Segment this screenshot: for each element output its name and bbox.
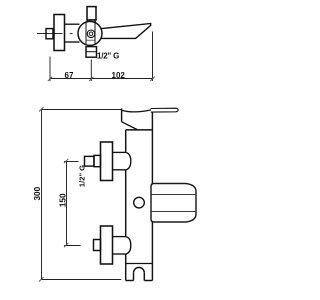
dim 67/102: left extension line (49, 57, 51, 82)
front view: bottom edge right of notch (144, 280, 152, 282)
front view: lever blade (151, 108, 179, 112)
top view: square union fitting (46, 29, 53, 39)
top view: cartridge housing right chord (94, 23, 96, 44)
front view: side knob (151, 184, 196, 223)
front view: body right edge (151, 112, 153, 281)
svg-text:150: 150 (58, 193, 67, 207)
front view: head left edge (121, 108, 123, 121)
front view: lower inlet flange (101, 226, 113, 264)
front view: head top curve (122, 110, 151, 112)
dim 300: top tick (39, 107, 43, 111)
front view: bottom cap divider (126, 263, 153, 265)
front view: knob lower line (151, 211, 195, 213)
front view: hose notch left leg (133, 273, 135, 281)
top view: spout outline (101, 24, 151, 39)
front view: upper inlet pipe top (113, 151, 126, 153)
front view: body left edge lower segment (125, 254, 127, 281)
front view: lower inlet square (94, 240, 101, 251)
front view: upper inlet boss arc (126, 152, 131, 169)
top view: wall flange (54, 15, 65, 51)
top view: tube flange-to-valve top line (65, 23, 80, 25)
top view: screw inner circle (89, 32, 93, 36)
cartridge inner line (86, 39, 95, 41)
svg-text:1/2" G: 1/2" G (97, 52, 119, 61)
dim 67/102: right extension line (152, 32, 154, 82)
top view: tube flange-to-valve bottom line (65, 41, 80, 43)
front view: body left edge upper segment (125, 130, 127, 153)
dim 150: vertical dimension line (66, 162, 68, 246)
top view: outlet fitting below valve (86, 47, 97, 58)
top view: valve body circle (78, 21, 102, 45)
svg-text:1/2" G: 1/2" G (78, 165, 87, 187)
dim 150: top extension line (64, 161, 79, 163)
top view: handle neck right (94, 20, 97, 23)
dim 150: top tick (64, 159, 68, 163)
front view: head bottom line (126, 129, 153, 131)
front view: hose notch right leg (143, 273, 145, 281)
tick at x=152.5 (150, 77, 154, 81)
tick at x=50 (48, 77, 52, 81)
front view: lower inlet pipe bottom (113, 253, 126, 255)
front view: upper inlet square 2 (94, 155, 101, 166)
wire: centerline dot segment (70, 33, 73, 35)
front view: lower inlet pipe top (113, 236, 126, 238)
front view: body left edge middle segment (125, 170, 127, 237)
tick at x=91.3 (89, 77, 93, 81)
dim 300: vertical dimension line (41, 110, 43, 280)
dim line 67 and 102 (50, 78, 153, 80)
top view: handle knob (87, 7, 96, 20)
svg-text:67: 67 (65, 71, 74, 80)
front view: head angled bottom-left (122, 122, 138, 130)
top view: handle neck left (86, 20, 89, 23)
svg-text:300: 300 (33, 186, 42, 200)
dim 150: bottom extension line (64, 245, 81, 247)
dim 300: top extension line (42, 109, 122, 111)
front view: bottom edge left of notch (126, 280, 134, 282)
front view: upper inlet square 1 (85, 156, 95, 166)
top view: cartridge housing left chord (85, 23, 87, 45)
dim 300: bottom tick (39, 277, 43, 281)
front view: hose notch arc (134, 267, 145, 272)
dim 150: bottom tick (64, 243, 68, 247)
top view: supply centerline (37, 33, 63, 35)
dim 67/102: middle extension line (90, 60, 92, 82)
front view: lower inlet boss arc (126, 237, 131, 254)
top view: screw outer circle (87, 30, 95, 38)
top view: outlet fitting divider (86, 51, 97, 53)
front view: diverter circle on body (134, 197, 145, 208)
front view: knob upper line (151, 194, 195, 196)
svg-text:102: 102 (112, 71, 126, 80)
front view: upper inlet pipe bottom (113, 169, 126, 171)
dim 300: bottom extension line (42, 279, 122, 281)
front view: upper inlet flange (101, 142, 113, 181)
